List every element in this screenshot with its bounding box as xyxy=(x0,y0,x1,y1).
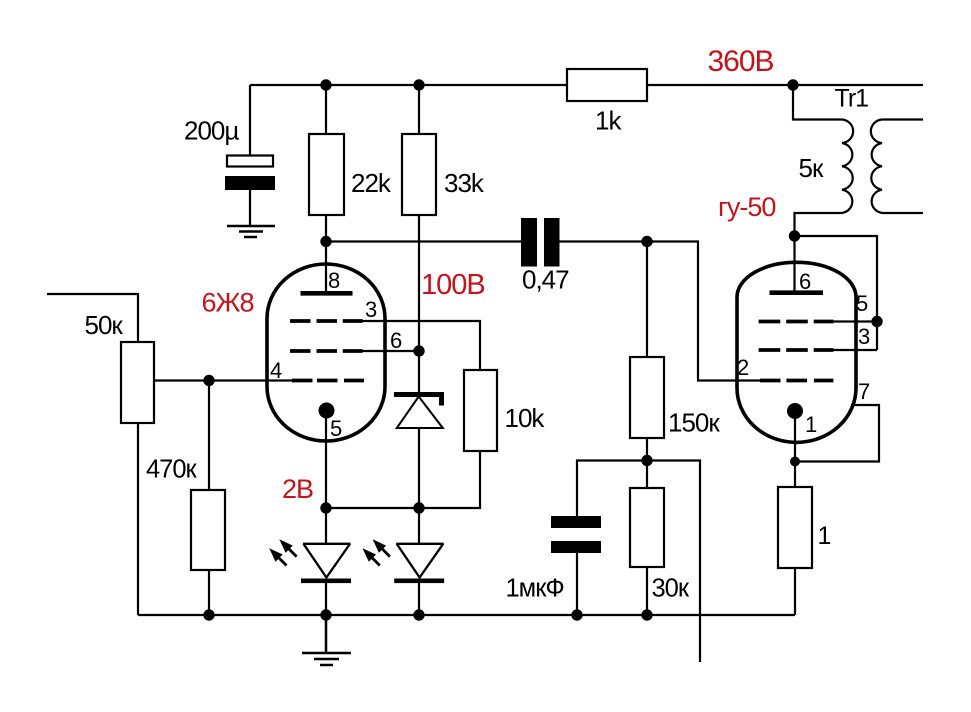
wire secondary top lead xyxy=(882,118,923,120)
svg-text:150к: 150к xyxy=(668,408,720,438)
junction node гу-50 cathode xyxy=(790,457,800,467)
гу-50 pin2 grid dashes xyxy=(760,379,833,383)
svg-text:2: 2 xyxy=(737,355,749,380)
svg-text:33k: 33k xyxy=(444,168,485,198)
junction node rail LED1 xyxy=(320,609,331,620)
wire 150k top lead xyxy=(646,242,648,358)
wire pin7 loop xyxy=(795,405,879,462)
resistor R 1 xyxy=(778,487,812,568)
tube гу-50 envelope xyxy=(737,262,856,442)
wire гу-50 anode lead xyxy=(793,236,795,293)
LED VD1 cathode bar xyxy=(301,579,351,584)
wire 470k bottom lead xyxy=(208,570,210,615)
svg-text:2B: 2B xyxy=(282,474,313,504)
wire 50k wiper to 6Ж8 pin4 xyxy=(155,379,293,381)
wire 30k top lead xyxy=(646,461,648,489)
svg-text:5: 5 xyxy=(330,416,342,441)
wire 200µ top lead xyxy=(249,85,251,156)
resistor R 150k xyxy=(630,357,664,438)
6Ж8 cathode dot xyxy=(319,403,335,419)
svg-text:Tr1: Tr1 xyxy=(835,85,869,113)
LED VD1 arrows xyxy=(269,539,296,565)
LED VD2 arrows xyxy=(363,539,390,565)
wire anode node to screen tie xyxy=(795,236,878,350)
resistor R 10k xyxy=(464,370,497,451)
wire LED1 cathode to rail xyxy=(325,583,327,615)
capacitor 1мкФ bottom plate xyxy=(551,541,601,553)
zener diode cathode bar xyxy=(394,395,442,406)
wire R1 bottom lead xyxy=(794,568,796,615)
junction node гу-50 anode xyxy=(789,230,800,241)
capacitor C 200µ top plate xyxy=(227,156,273,167)
junction node coupling to 150k xyxy=(641,236,652,247)
wire cathode to R1 xyxy=(794,462,796,488)
svg-text:6: 6 xyxy=(799,269,811,294)
svg-text:1мкФ: 1мкФ xyxy=(506,575,564,603)
wire ground rail bottom xyxy=(138,614,795,616)
svg-text:0,47: 0,47 xyxy=(522,265,569,295)
гу-50 pin3 grid dashes xyxy=(759,348,834,352)
wire coupling cap to гу-50 grid xyxy=(560,242,761,381)
LED VD2 triangle xyxy=(396,544,444,578)
junction node top of 33k xyxy=(413,79,424,90)
svg-text:30к: 30к xyxy=(652,575,690,603)
wire B+ top rail left segment xyxy=(250,84,566,86)
zener diode triangle xyxy=(397,397,443,429)
wire 6Ж8 pin3 to 10k xyxy=(362,321,480,370)
svg-text:470к: 470к xyxy=(146,456,198,484)
ground under 200µ xyxy=(227,226,275,237)
wire 33k bottom lead screen feed xyxy=(418,215,420,351)
wire 22k bottom lead xyxy=(325,215,327,242)
wire 6Ж8 cathode lead xyxy=(325,411,327,509)
svg-text:360B: 360B xyxy=(708,45,774,78)
LED VD1 triangle xyxy=(303,544,351,578)
wire 150k bottom lead xyxy=(646,438,648,461)
junction node top of 22k xyxy=(320,79,331,90)
junction node rail 470k xyxy=(203,609,214,620)
junction node rail 30k xyxy=(641,609,652,620)
wire 1мкФ bottom lead xyxy=(576,553,578,615)
wire 2B node to 10k bottom xyxy=(326,451,480,508)
capacitor 0,47 right plate xyxy=(544,218,560,267)
6Ж8 grid pin3 dashes xyxy=(290,319,363,323)
wire 22k top lead xyxy=(325,85,327,134)
wire input xyxy=(47,294,138,341)
wire LED2 top lead xyxy=(418,508,420,545)
wire 30k bottom lead xyxy=(646,567,648,615)
svg-text:3: 3 xyxy=(858,324,870,349)
svg-text:гу-50: гу-50 xyxy=(718,192,775,222)
svg-text:1: 1 xyxy=(818,522,831,550)
capacitor 0,47 left plate xyxy=(521,218,537,267)
LED VD2 cathode bar xyxy=(394,579,444,584)
svg-text:1k: 1k xyxy=(595,106,622,136)
junction node bias xyxy=(641,455,652,466)
wire B+ top rail right segment xyxy=(648,84,923,86)
svg-text:22k: 22k xyxy=(351,168,392,198)
resistor R 22k xyxy=(309,134,344,215)
wire zener top lead xyxy=(418,351,420,392)
svg-text:6Ж8: 6Ж8 xyxy=(202,288,254,318)
wire LED1 top lead xyxy=(325,508,327,545)
wire 50k bottom to ground rail xyxy=(137,423,139,615)
wire grid node to 470k xyxy=(208,381,210,491)
junction node 360B at transformer xyxy=(787,79,798,90)
tube 6Ж8 envelope xyxy=(267,264,385,441)
junction node rail 1мкФ xyxy=(571,609,582,620)
junction node grid input xyxy=(203,375,214,386)
svg-text:5: 5 xyxy=(856,291,868,316)
junction node rail LED2 xyxy=(413,609,424,620)
wire transformer primary bottom lead xyxy=(795,213,843,236)
resistor R 1k xyxy=(567,69,647,101)
wire 6Ж8 pin6 to screen node xyxy=(362,350,419,352)
wire 6Ж8 anode lead xyxy=(325,242,327,295)
гу-50 anode plate xyxy=(770,290,824,295)
resistor R 33k xyxy=(402,134,436,215)
wire anode node to coupling cap xyxy=(326,240,521,242)
6Ж8 grid pin4 dashes xyxy=(292,379,364,383)
capacitor 1мкФ top plate xyxy=(551,516,601,528)
гу-50 cathode dot xyxy=(787,403,803,419)
svg-text:6: 6 xyxy=(390,328,402,353)
wire transformer primary top lead xyxy=(793,85,842,120)
svg-text:3: 3 xyxy=(365,297,377,322)
wire LED2 cathode to rail xyxy=(418,583,420,615)
svg-text:4: 4 xyxy=(270,358,282,383)
junction node screen tie xyxy=(871,316,882,327)
6Ж8 grid pin6 dashes xyxy=(290,349,363,353)
transformer Tr1 secondary winding xyxy=(871,120,882,214)
wire 33k top lead xyxy=(418,85,420,134)
resistor R 30k xyxy=(630,488,664,567)
wire bias rail and off-page tail xyxy=(577,461,700,663)
гу-50 pin5 grid dashes xyxy=(759,320,834,324)
junction node 2B right xyxy=(413,502,424,513)
junction node 2B left xyxy=(320,502,331,513)
wire гу-50 cathode lead xyxy=(794,411,796,462)
svg-text:5к: 5к xyxy=(799,153,824,183)
transformer Tr1 primary winding xyxy=(842,120,853,214)
svg-text:100B: 100B xyxy=(421,269,485,301)
capacitor C 200µ bottom plate xyxy=(225,176,275,190)
svg-text:8: 8 xyxy=(328,268,340,293)
wire гу-50 pin5 to tie xyxy=(833,320,877,322)
wire zener bottom lead xyxy=(418,428,420,508)
junction node screen zener xyxy=(413,345,424,356)
ground symbol bottom xyxy=(302,615,351,665)
svg-text:1: 1 xyxy=(805,412,817,437)
wire secondary bottom lead xyxy=(882,212,923,214)
svg-text:50к: 50к xyxy=(85,310,124,340)
resistor R 470k xyxy=(191,490,225,570)
6Ж8 anode plate xyxy=(301,291,353,296)
svg-text:200µ: 200µ xyxy=(184,116,239,146)
wire 200µ to ground xyxy=(249,190,251,226)
svg-text:10k: 10k xyxy=(505,403,546,433)
junction node 6Ж8 anode xyxy=(320,236,331,247)
wire гу-50 pin3 to tie xyxy=(833,349,877,351)
resistor R 50k xyxy=(121,342,154,423)
svg-text:7: 7 xyxy=(858,379,870,404)
